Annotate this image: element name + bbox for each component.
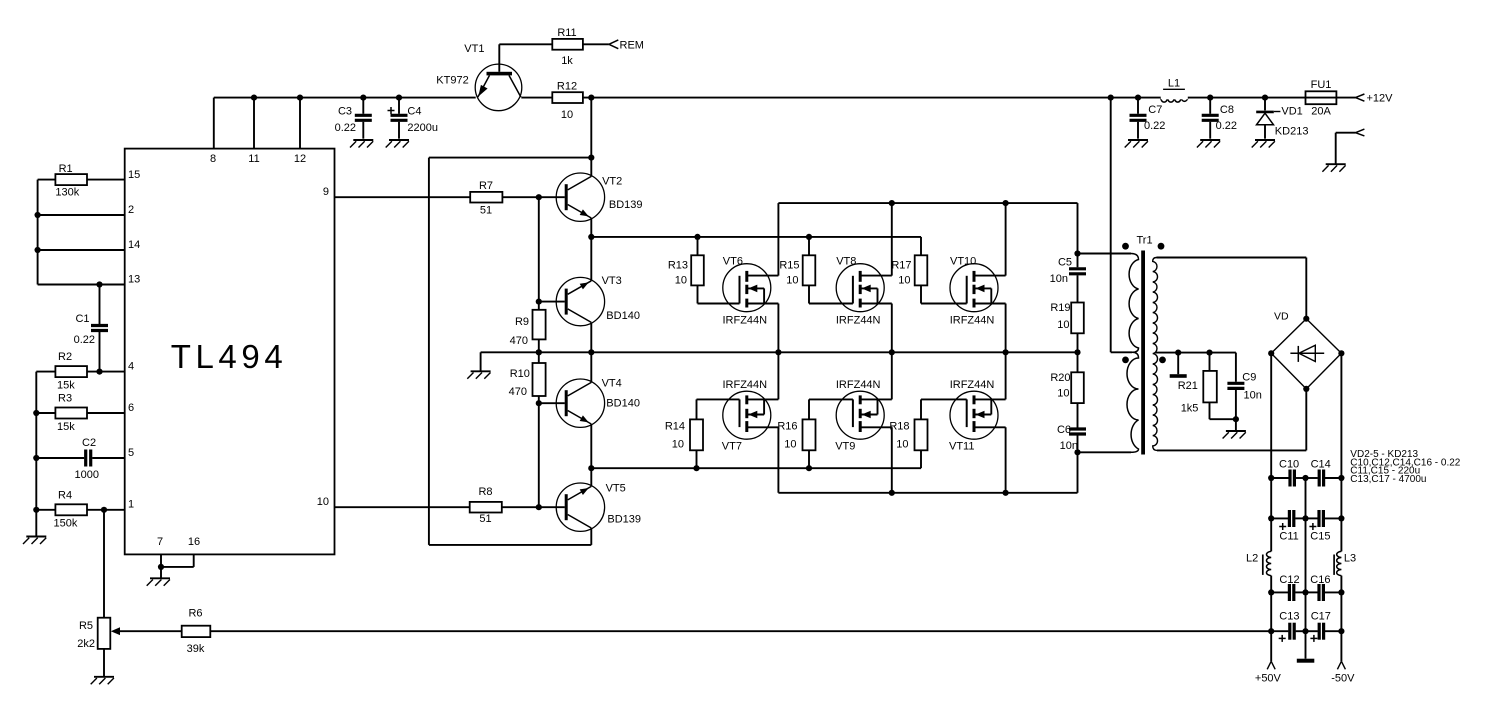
wire pin11 riser — [253, 98, 255, 149]
VT10 source wire — [1005, 304, 1007, 353]
node source VT9 — [889, 490, 895, 496]
svg-text:R19: R19 — [1050, 302, 1070, 314]
svg-text:C5: C5 — [1058, 257, 1072, 269]
capacitor C5 — [1077, 254, 1079, 268]
wire VT4 collector up — [590, 352, 592, 382]
svg-text:R8: R8 — [478, 486, 492, 498]
R21 bar — [1170, 374, 1187, 378]
node mid VT6 — [775, 349, 781, 355]
Tr1 phase dot secondary mid — [1159, 357, 1166, 364]
svg-text:51: 51 — [479, 513, 491, 525]
svg-text:C14: C14 — [1311, 459, 1331, 471]
resistor R16 — [803, 419, 816, 450]
node rail A R15 — [806, 234, 812, 240]
node row2 left — [1268, 515, 1274, 521]
R5 wiper arrow — [111, 627, 120, 635]
svg-text:VT10: VT10 — [950, 256, 976, 268]
wire drive loop left — [428, 158, 430, 545]
fuse FU1 — [1306, 91, 1337, 104]
wire secondary top — [1157, 257, 1307, 259]
svg-text:10: 10 — [672, 439, 684, 451]
wire drain rail drop — [1077, 203, 1079, 253]
node gate rail B junction — [588, 465, 594, 471]
R21 bottom lead — [1209, 402, 1211, 419]
transistor VT11 IRFZ44N — [950, 391, 1006, 439]
node row1 mid — [1302, 475, 1308, 481]
ground left rail — [23, 537, 46, 545]
svg-text:150k: 150k — [54, 518, 78, 530]
resistor R1 — [55, 174, 87, 185]
svg-text:1k5: 1k5 — [1181, 403, 1199, 415]
wire bridge left drop — [1270, 353, 1272, 478]
wire gate rail A — [591, 236, 921, 238]
ground R5 — [91, 677, 114, 685]
transistor VT3 BD140 — [556, 277, 604, 325]
pin16 stub — [193, 554, 195, 567]
svg-text:9: 9 — [323, 186, 329, 198]
wire R8 to VT5 base — [502, 506, 565, 508]
resistor R6 — [182, 626, 211, 637]
capacitor C14 — [1306, 477, 1318, 479]
svg-text:0.22: 0.22 — [74, 334, 95, 346]
C4 plus sign — [388, 110, 395, 112]
left rail seg3 — [1270, 592, 1272, 631]
VT11 source wire — [1005, 427, 1007, 493]
right rail seg1 — [1340, 478, 1342, 518]
wire base column lower — [538, 403, 540, 507]
node mid VT34 junction — [588, 349, 594, 355]
op-amp U1 TL494 IC body — [125, 149, 335, 555]
svg-text:0.22: 0.22 — [335, 122, 356, 134]
node source VT11 — [1003, 490, 1009, 496]
svg-text:C1: C1 — [75, 313, 89, 325]
svg-text:TL494: TL494 — [171, 338, 288, 375]
wire VT3 emitter up — [590, 237, 592, 281]
svg-text:C10: C10 — [1279, 459, 1299, 471]
node row4 right — [1338, 628, 1344, 634]
svg-text:R4: R4 — [58, 490, 72, 502]
capacitor C9 — [1235, 353, 1237, 382]
svg-text:20A: 20A — [1311, 106, 1331, 118]
bridge inner diode — [1290, 352, 1324, 354]
inductor L1 — [1161, 98, 1188, 103]
Tr1 phase dot primary top — [1122, 243, 1129, 250]
node R21 stub junction — [1175, 350, 1181, 356]
svg-text:R10: R10 — [510, 368, 530, 380]
wire bridge top riser — [1305, 258, 1307, 319]
rectifier bridge VD diamond — [1271, 319, 1306, 354]
svg-text:470: 470 — [509, 386, 527, 398]
node row2 right — [1338, 515, 1344, 521]
wire R12 junction down — [590, 98, 592, 158]
svg-text:REM: REM — [620, 40, 644, 52]
wire pin14 — [38, 249, 125, 251]
C15 plus — [1309, 526, 1316, 528]
node C1 top junction — [96, 281, 102, 287]
resistor R20 — [1071, 372, 1084, 403]
svg-text:13: 13 — [128, 274, 140, 286]
svg-text:BD140: BD140 — [606, 398, 640, 410]
node rail C2 — [33, 455, 39, 461]
node row3 left — [1268, 589, 1274, 595]
node R4 pin1 junction — [101, 507, 107, 513]
node R10 bottom junction — [536, 400, 542, 406]
chassis return wire — [1335, 133, 1337, 165]
svg-text:10: 10 — [786, 275, 798, 287]
svg-text:-50V: -50V — [1331, 673, 1355, 685]
svg-text:2200u: 2200u — [407, 122, 438, 134]
node C9 bottom junction — [1233, 416, 1239, 422]
node drive top junction — [588, 155, 594, 161]
wire pin2 — [38, 214, 125, 216]
svg-text:R21: R21 — [1178, 380, 1198, 392]
svg-text:VT11: VT11 — [949, 441, 974, 453]
node bridge bottom — [1303, 386, 1309, 392]
wire +12V rail right — [583, 97, 1356, 99]
R13 bottom jog — [697, 285, 699, 303]
svg-text:0.22: 0.22 — [1144, 120, 1165, 132]
svg-text:C4: C4 — [407, 106, 421, 118]
node pin11 junction — [251, 95, 257, 101]
svg-text:5: 5 — [128, 447, 134, 459]
node VT5 base junction — [536, 504, 542, 510]
svg-text:10: 10 — [675, 275, 687, 287]
resistor R7 — [470, 192, 502, 203]
Tr1 primary lower winding — [1127, 352, 1139, 452]
svg-text:10: 10 — [898, 275, 910, 287]
diode VD1 KD213 — [1264, 98, 1266, 111]
svg-text:10: 10 — [896, 439, 908, 451]
svg-text:BD139: BD139 — [607, 514, 641, 526]
VT7 source wire — [777, 427, 779, 493]
node R7 base junction — [536, 194, 542, 200]
capacitor C6 — [1077, 403, 1079, 427]
row C10 C14 wire — [1271, 477, 1288, 479]
node bridge top — [1303, 316, 1309, 322]
svg-text:VT3: VT3 — [602, 275, 622, 287]
right rail above L3 — [1340, 518, 1342, 551]
REM arrow — [609, 40, 618, 44]
svg-text:KD213: KD213 — [1275, 126, 1309, 138]
R18 bottom lead — [920, 450, 922, 468]
svg-text:1000: 1000 — [75, 469, 99, 481]
resistor R21 1k5 — [1203, 371, 1217, 403]
node Tr1 primary riser junction — [1108, 95, 1114, 101]
VT6 drain wire — [777, 203, 779, 276]
node chain bottom junction — [1074, 449, 1080, 455]
node R21 top junction — [1206, 350, 1212, 356]
+50V arrow — [1267, 661, 1271, 669]
resistor R4 — [55, 504, 87, 515]
capacitor C10 — [1288, 470, 1291, 487]
ground C4 — [386, 140, 409, 148]
resistor R8 — [470, 502, 502, 513]
capacitor C15 — [1306, 517, 1318, 519]
svg-text:+50V: +50V — [1255, 673, 1282, 685]
transistor VT10 IRFZ44N — [950, 264, 1006, 312]
R14 bottom lead — [696, 450, 698, 468]
resistor R13 — [691, 255, 704, 285]
wire bridge right drop — [1340, 353, 1342, 478]
node rail R4 — [33, 507, 39, 513]
svg-text:VD: VD — [1274, 311, 1289, 323]
resistor R12 — [552, 92, 583, 103]
resistor R15 — [803, 255, 816, 285]
right rail seg3 — [1340, 592, 1342, 631]
wire VT4 emitter down — [590, 424, 592, 468]
svg-text:L3: L3 — [1344, 553, 1356, 565]
left rail below L2 — [1270, 576, 1272, 593]
+12V arrow — [1356, 94, 1365, 98]
node mid R9R10 junction — [536, 349, 542, 355]
R17 bottom jog — [920, 285, 922, 303]
node row1 right — [1338, 475, 1344, 481]
VT9 source wire — [891, 427, 893, 493]
svg-text:VT6: VT6 — [723, 256, 743, 268]
svg-text:C13: C13 — [1279, 611, 1299, 623]
svg-text:R16: R16 — [777, 421, 797, 433]
R14 top jog — [696, 399, 698, 419]
node row3 mid — [1302, 589, 1308, 595]
svg-text:R17: R17 — [891, 260, 911, 272]
capacitor C8 — [1209, 98, 1211, 114]
ground chassis return — [1322, 164, 1345, 172]
ground C9 — [1223, 431, 1246, 439]
wire mid ground stub out — [1305, 631, 1307, 659]
svg-text:VT9: VT9 — [835, 441, 855, 453]
svg-text:15k: 15k — [57, 421, 75, 433]
svg-text:IRFZ44N: IRFZ44N — [722, 315, 767, 327]
node rail B R14 — [693, 465, 699, 471]
wire VT5 collector up — [590, 468, 592, 486]
VT10 drain wire — [1005, 203, 1007, 276]
svg-text:L1: L1 — [1168, 78, 1180, 90]
wire drain rail — [778, 202, 1077, 204]
row C13 C17 wire — [1271, 630, 1288, 632]
svg-text:10n: 10n — [1050, 273, 1068, 285]
resistor R3 — [55, 408, 87, 419]
svg-text:Tr1: Tr1 — [1137, 235, 1153, 247]
node drain VT8 — [889, 200, 895, 206]
R18 top jog — [920, 399, 922, 419]
mid rail seg1 — [1305, 478, 1307, 518]
R13 top lead — [697, 237, 699, 255]
node chain top junction — [1074, 250, 1080, 256]
row C12 C16 wire — [1271, 591, 1288, 593]
svg-text:130k: 130k — [55, 187, 79, 199]
node C8 junction — [1207, 95, 1213, 101]
node bridge right — [1338, 350, 1344, 356]
resistor R14 — [690, 419, 703, 450]
R20 top lead — [1077, 352, 1079, 372]
R1 right lead — [87, 179, 125, 181]
resistor R10 — [533, 363, 546, 396]
svg-text:15k: 15k — [57, 380, 75, 392]
wire R5 to R6 — [118, 630, 182, 632]
svg-text:R2: R2 — [58, 351, 72, 363]
wire secondary center tap — [1156, 352, 1236, 354]
node row4 mid — [1302, 628, 1308, 634]
left rail seg1 — [1270, 478, 1272, 518]
transistor VT8 IRFZ44N — [836, 264, 892, 312]
transistor VT5 BD139 — [556, 483, 604, 531]
node gate rail A junction — [588, 234, 594, 240]
capacitor C16 — [1306, 591, 1318, 593]
node VT3 base junction — [536, 299, 542, 305]
svg-text:R14: R14 — [665, 421, 685, 433]
svg-text:2: 2 — [128, 204, 134, 216]
node rail A R13 — [694, 234, 700, 240]
resistor R17 — [915, 255, 928, 285]
pin7 stub — [160, 554, 162, 567]
VT1 base riser — [498, 44, 500, 72]
svg-text:VD1: VD1 — [1281, 106, 1302, 118]
VT6 source wire — [777, 304, 779, 353]
transistor VT4 BD140 — [556, 379, 604, 427]
svg-text:L2: L2 — [1246, 553, 1258, 565]
capacitor C1 — [99, 285, 101, 325]
wire VT2 emitter down — [590, 218, 592, 237]
svg-text:10: 10 — [784, 439, 796, 451]
transistor VT6 IRFZ44N — [723, 264, 779, 312]
transistor VT7 IRFZ44N — [723, 391, 779, 439]
wire pin8 riser — [213, 98, 215, 149]
row C11 C15 wire — [1271, 517, 1288, 519]
node rail B R16 — [806, 465, 812, 471]
potentiometer R5 — [98, 618, 111, 649]
svg-text:8: 8 — [210, 153, 216, 165]
node R9 bottom junction — [536, 349, 542, 355]
capacitor C12 — [1288, 584, 1291, 601]
wire gate rail B — [591, 467, 921, 469]
svg-text:+12V: +12V — [1367, 93, 1394, 105]
svg-text:C6: C6 — [1057, 424, 1071, 436]
svg-text:R6: R6 — [188, 608, 202, 620]
-50V arrow — [1337, 661, 1341, 669]
svg-text:VT1: VT1 — [464, 43, 484, 55]
resistor R19 — [1071, 303, 1084, 334]
R15 bottom jog — [808, 285, 810, 303]
mid rail seg2 — [1305, 518, 1307, 592]
svg-text:0.22: 0.22 — [1216, 120, 1237, 132]
wire base column upper — [538, 197, 540, 301]
wire VT3 base — [539, 301, 565, 303]
capacitor C3 — [362, 98, 364, 114]
svg-text:C7: C7 — [1148, 104, 1162, 116]
svg-text:R9: R9 — [515, 316, 529, 328]
ground C3 — [350, 140, 373, 148]
VT7 drain wire — [777, 352, 779, 399]
node C1 bottom junction — [96, 369, 102, 375]
svg-text:IRFZ44N: IRFZ44N — [722, 379, 767, 391]
inductor L3 — [1337, 551, 1342, 575]
svg-text:IRFZ44N: IRFZ44N — [950, 379, 995, 391]
svg-text:VT5: VT5 — [606, 483, 626, 495]
svg-text:IRFZ44N: IRFZ44N — [836, 315, 881, 327]
chassis return arrow — [1356, 129, 1365, 133]
node mid VT8 — [889, 349, 895, 355]
wire R7 to VT2 base — [502, 196, 564, 198]
node row1 left — [1268, 475, 1274, 481]
svg-text:6: 6 — [128, 402, 134, 414]
Tr1 phase dot secondary top — [1158, 243, 1165, 250]
transistor VT2 BD139 — [556, 173, 604, 221]
node C7 junction — [1135, 95, 1141, 101]
svg-text:15: 15 — [128, 169, 140, 181]
svg-text:10n: 10n — [1244, 390, 1262, 402]
svg-text:VT4: VT4 — [602, 378, 622, 390]
svg-text:VT7: VT7 — [722, 441, 742, 453]
R10 leads — [538, 352, 540, 363]
C13 plus — [1279, 637, 1286, 639]
resistor R2 — [55, 366, 87, 377]
node pin12 junction — [297, 95, 303, 101]
ground mid rail — [467, 371, 490, 379]
ground C8 — [1197, 140, 1220, 148]
R21 stub — [1177, 353, 1179, 375]
wire VT4 base — [539, 402, 565, 404]
wire drive loop top — [429, 157, 591, 159]
wire pin12 riser — [299, 98, 301, 149]
inductor L2 — [1266, 551, 1271, 575]
ground C7 — [1125, 140, 1148, 148]
R3 leads — [36, 412, 55, 414]
VT8 drain wire — [891, 203, 893, 276]
capacitor C2 — [36, 457, 84, 459]
node row3 right — [1338, 589, 1344, 595]
node bridge left — [1268, 350, 1274, 356]
svg-text:2k2: 2k2 — [77, 638, 95, 650]
wire primary bottom link — [1078, 451, 1132, 453]
svg-text:C3: C3 — [338, 106, 352, 118]
node row2 mid — [1302, 515, 1308, 521]
C17 plus — [1310, 637, 1317, 639]
svg-text:VT8: VT8 — [836, 256, 856, 268]
wire mid rail — [481, 351, 1078, 353]
capacitor C11 — [1288, 510, 1291, 527]
wire source rail riser — [1077, 452, 1079, 493]
svg-text:R13: R13 — [668, 260, 688, 272]
svg-text:IRFZ44N: IRFZ44N — [836, 379, 881, 391]
svg-text:R12: R12 — [557, 81, 577, 93]
R15 top lead — [808, 237, 810, 255]
pin7 ground lead — [160, 567, 162, 578]
node pin7 junction — [158, 564, 164, 570]
wire drive loop bottom — [429, 544, 591, 546]
ground IC — [147, 578, 170, 586]
svg-text:12: 12 — [294, 153, 306, 165]
wire R6 feedback long — [210, 630, 1271, 632]
R17 top lead — [920, 237, 922, 255]
svg-text:10: 10 — [317, 496, 329, 508]
wire +12V rail left — [214, 97, 476, 99]
R4 leads — [36, 509, 55, 511]
svg-text:470: 470 — [510, 335, 528, 347]
R2 right lead — [87, 371, 125, 373]
R1 left lead — [38, 179, 56, 181]
wire +50V stub — [1270, 631, 1272, 661]
node C3 junction — [360, 95, 366, 101]
svg-text:C16: C16 — [1310, 574, 1330, 586]
wire VT1 base to R11 — [499, 43, 552, 45]
capacitor C7 — [1137, 98, 1139, 114]
R9 leads — [538, 302, 540, 310]
svg-text:R11: R11 — [557, 27, 576, 39]
node VD1 junction — [1262, 95, 1268, 101]
wire primary top link — [1078, 253, 1132, 255]
node R12 out junction — [588, 95, 594, 101]
node rail R3 — [33, 410, 39, 416]
